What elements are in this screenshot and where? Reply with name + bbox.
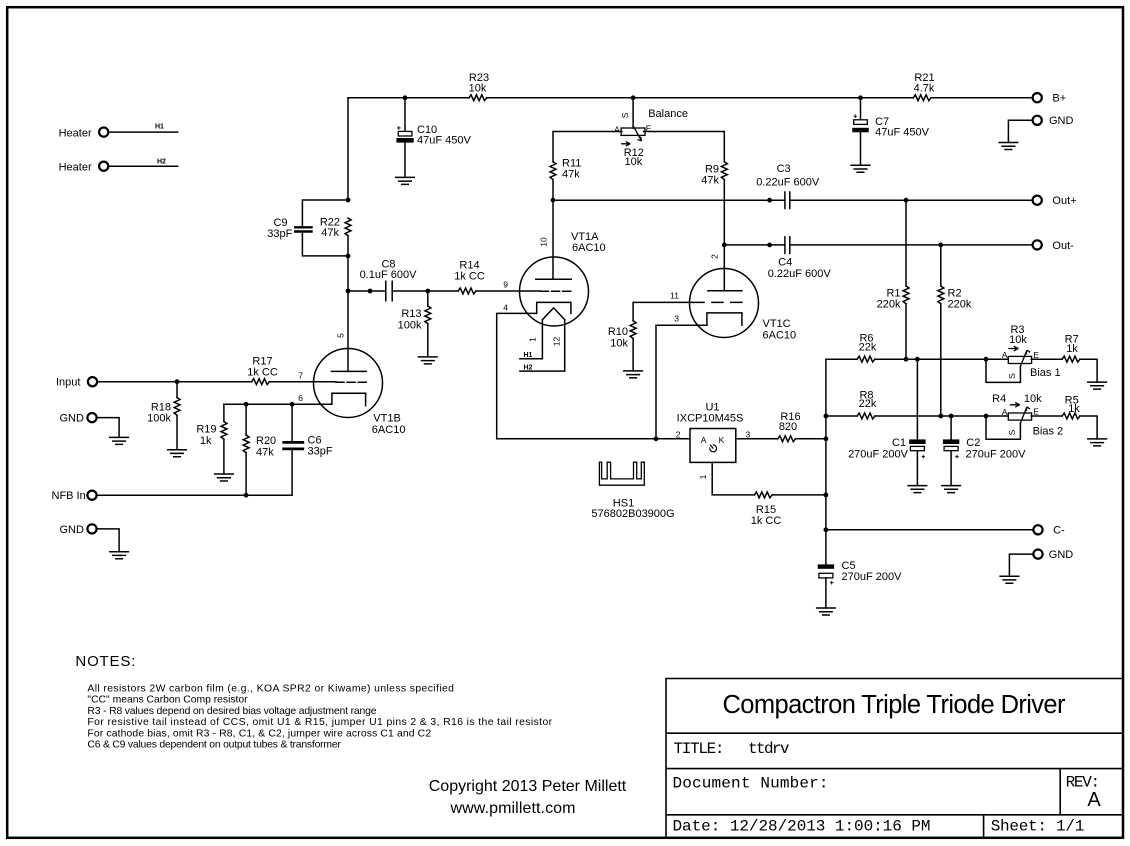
connector GND (bottom right) [1033,549,1073,561]
svg-text:Bias 2: Bias 2 [1033,426,1064,438]
node U1 input / VT1C cathode junction [654,436,659,441]
svg-text:NFB In: NFB In [52,490,86,502]
node C8 / R13 junction [425,289,430,294]
VT1C cathode [707,313,742,325]
svg-text:0.1uF 600V: 0.1uF 600V [360,269,418,281]
wire R4 wiper loop [986,416,1020,439]
svg-text:0.22uF 600V: 0.22uF 600V [768,268,832,280]
svg-text:1k CC: 1k CC [247,367,278,379]
resistor R23 [469,72,489,101]
potentiometer R3 Bias 1 [1002,324,1061,379]
svg-text:C1: C1 [892,437,906,449]
svg-text:10k: 10k [469,83,487,95]
connector B+ [1033,93,1067,105]
wire GND connector to ground [1008,120,1032,142]
resistor R10 [608,321,636,371]
node R6 rail / R1 junction [904,357,909,362]
wire pot A to R11 [553,132,622,162]
wire C8 rail [348,290,541,292]
ground below C7 [851,165,870,172]
svg-text:5: 5 [336,333,346,338]
resistor R14 [454,260,485,294]
svg-text:VT1B: VT1B [373,413,401,425]
svg-text:1k: 1k [200,435,212,447]
node R9/VT1C plate/Out- junction [722,243,727,248]
ground (left upper) [110,437,129,444]
capacitor C3 [756,163,820,208]
capacitor C4 [768,237,832,280]
node Out- / R2 junction [938,243,943,248]
connector GND (left upper) [60,413,97,425]
resistor R20 [243,404,276,495]
resistor R19 [196,404,227,474]
svg-text:C2: C2 [966,437,980,449]
op-amp U1 IXCP10M45S [676,402,751,463]
resistor R2 [938,245,972,416]
VT1B cathode [332,393,366,405]
svg-text:A: A [701,435,707,445]
svg-text:270uF 200V: 270uF 200V [842,571,903,583]
svg-text:R4: R4 [992,393,1006,405]
svg-text:33pF: 33pF [267,228,292,240]
svg-text:Out-: Out- [1052,240,1074,252]
connector Heater H2 [59,161,109,173]
svg-text:R13: R13 [401,308,421,320]
svg-text:1: 1 [528,337,538,342]
svg-text:3: 3 [746,429,751,439]
svg-text:100k: 100k [147,413,171,425]
node Out+ / R1 junction [904,198,909,203]
svg-text:10: 10 [539,237,549,247]
svg-text:Out+: Out+ [1052,195,1076,207]
svg-text:ttdrv: ttdrv [748,740,790,758]
node stray dot left of C8 [368,289,373,294]
wire R9 bottom to Out- rail [723,180,725,245]
svg-text:11: 11 [670,291,679,301]
connector GND (top right) [1033,115,1074,127]
wire VT1C cathode pin 3 down to U1 input node [656,314,707,439]
node pin6 / R20 junction [244,402,249,407]
svg-text:S: S [620,112,630,118]
svg-text:820: 820 [779,421,797,433]
svg-text:220k: 220k [948,298,972,310]
ground (left lower) [110,552,129,559]
resistor R5 [1062,394,1080,419]
connector GND (left lower) [60,524,97,536]
node R6 rail / C1 junction [915,357,920,362]
ground below R7 [1088,382,1107,389]
svg-text:10k: 10k [1009,334,1027,346]
ground below R5 [1088,439,1107,446]
svg-text:10k: 10k [610,338,628,350]
wire R12 wiper [632,98,634,128]
VT1C plate lead pin 2 [710,245,725,291]
wire R6 bias rail [826,359,1097,382]
svg-text:22k: 22k [859,341,877,353]
node C8 rail tap [346,289,351,294]
svg-text:2: 2 [710,254,720,259]
resistor R17 [247,356,278,385]
svg-text:33pF: 33pF [308,446,333,458]
svg-text:K: K [719,435,725,445]
connector Input [56,377,97,389]
svg-text:Document Number:: Document Number: [673,774,829,792]
tube VT1B 6AC10 [314,349,406,437]
connector NFB In [52,490,97,502]
capacitor C9 [267,200,348,256]
potentiometer R12 Balance [614,108,688,168]
resistor R8 [857,389,877,419]
svg-text:R3 - R8 values depend on desir: R3 - R8 values depend on desired bias vo… [87,706,376,717]
svg-text:GND: GND [60,413,85,425]
svg-text:For resistive tail instead of: For resistive tail instead of CCS, omit … [87,717,552,728]
wire NFB rail [97,494,292,496]
svg-text:7: 7 [298,371,303,381]
VT1A grid (dashed) [541,290,572,292]
svg-text:1k CC: 1k CC [751,515,782,527]
node NFB / R20 junction [244,493,249,498]
svg-text:47uF 450V: 47uF 450V [875,126,929,138]
node R8 rail / R4 wiper junction [984,414,989,419]
svg-text:Bias 1: Bias 1 [1030,367,1061,379]
svg-text:100k: 100k [398,319,422,331]
wire left bias vertical [825,359,827,564]
svg-text:47uF 450V: 47uF 450V [417,135,471,147]
title block frame [666,679,1122,838]
heatsink HS1 [591,462,674,520]
svg-text:3: 3 [674,314,679,324]
wire GND connector to ground [1009,554,1033,576]
svg-text:47k: 47k [701,175,719,187]
wire U1 pin 3 to R16 [736,438,778,440]
svg-text:VT1C: VT1C [763,318,791,330]
potentiometer R4 Bias 2 [992,393,1063,437]
ground below R19 [215,474,234,481]
svg-text:GND: GND [1049,115,1074,127]
node R8 rail / C2 junction [949,414,954,419]
svg-text:www.pmillett.com: www.pmillett.com [450,800,576,817]
wire VT1C grid pin 11 to R10 [633,291,693,321]
svg-text:A: A [1002,350,1008,360]
svg-text:For cathode bias, omit R3 - R8: For cathode bias, omit R3 - R8, C1, & C2… [87,728,431,739]
capacitor C5 [818,560,902,608]
wire R11 bottom to Out+ rail [552,180,554,201]
resistor R1 [877,200,909,359]
wire pot E to R9 [644,132,725,162]
connector Heater H1 [59,127,109,139]
svg-text:C4: C4 [778,257,792,269]
svg-text:GND: GND [60,524,85,536]
wire Out- rail [724,244,1032,246]
svg-text:C3: C3 [777,163,791,175]
ground below R13 [419,357,438,364]
resistor R15 [751,492,826,527]
node stray dot left of C4 [767,243,772,248]
node pin6 / C6 junction [290,402,295,407]
svg-text:220k: 220k [877,298,901,310]
VT1C grid (dashed) [693,301,742,303]
capacitor C6 [282,404,333,495]
svg-text:47k: 47k [562,169,580,181]
node C9/R22 bottom [346,254,351,259]
capacitor C8 [360,258,418,300]
node R16 / left vertical junction [824,436,829,441]
svg-text:C-: C- [1053,525,1065,537]
node C- rail / left vertical junction [824,527,829,532]
wire top rail corner down to C9/R22 node [347,98,349,200]
svg-text:TITLE:: TITLE: [674,740,725,758]
svg-text:R18: R18 [151,401,171,413]
VT1C plate [708,290,742,292]
svg-text:Date: 12/28/2013 1:00:16 PM: Date: 12/28/2013 1:00:16 PM [673,818,931,836]
svg-text:GND: GND [1049,549,1074,561]
VT1B plate [332,333,367,372]
tube VT1C 6AC10 [690,269,797,342]
wire U1 pin 1 to R15 [698,462,754,495]
wire H1 [109,123,178,132]
svg-text:6: 6 [298,393,303,403]
node R6 rail / R3 wiper junction [984,357,989,362]
svg-text:Heater: Heater [59,161,92,173]
svg-text:1k CC: 1k CC [454,270,485,282]
svg-text:A: A [1002,407,1008,417]
svg-text:Heater: Heater [59,127,92,139]
svg-text:IXCP10M45S: IXCP10M45S [677,412,744,424]
VT1B grid (dashed) [336,381,366,383]
notes text [87,684,552,751]
wire R8 bias rail [826,416,1097,439]
svg-text:1: 1 [698,474,708,479]
ground below R10 [624,371,643,378]
resistor R18 [147,382,180,450]
svg-text:Copyright 2013 Peter Millett: Copyright 2013 Peter Millett [429,778,627,795]
svg-text:9: 9 [503,280,508,290]
wire C- rail [826,529,1034,531]
wire R22 bottom down to C8 rail and VT1B plate [347,236,349,372]
resistor R7 [1062,333,1080,362]
svg-text:4: 4 [503,303,508,313]
resistor R11 [550,157,581,180]
svg-text:Sheet: 1/1: Sheet: 1/1 [991,818,1085,836]
svg-text:10k: 10k [625,156,643,168]
node R8 rail / left vertical junction [824,414,829,419]
svg-text:Balance: Balance [648,108,688,120]
resistor R13 [398,291,431,357]
svg-text:C6 & C9 values dependent on ou: C6 & C9 values dependent on output tubes… [87,740,341,751]
svg-text:R11: R11 [562,157,581,169]
resistor R16 [778,411,826,442]
svg-text:2: 2 [676,429,681,439]
svg-text:All resistors 2W carbon film (: All resistors 2W carbon film (e.g., KOA … [87,684,454,695]
VT1A plate [536,278,571,280]
svg-text:H1: H1 [524,352,533,359]
svg-text:4.7k: 4.7k [914,83,935,95]
svg-text:22k: 22k [859,398,877,410]
node stray dot left of C3 [767,198,772,203]
resistor R9 [701,162,727,187]
node top rail / R12 wiper junction [631,95,636,100]
ground below C2 [942,486,961,493]
svg-text:6AC10: 6AC10 [372,424,406,436]
svg-text:A: A [614,125,620,135]
svg-text:E: E [1033,407,1039,417]
connector Out+ [1033,195,1077,207]
svg-text:270uF 200V: 270uF 200V [848,448,909,460]
node top rail / C7 junction [858,95,863,100]
wire R3 wiper loop [986,359,1020,382]
node R8 rail / R2 junction [938,414,943,419]
svg-text:6AC10: 6AC10 [763,330,797,342]
ground (bottom right) [1000,576,1019,583]
svg-text:E: E [1033,350,1039,360]
node top rail / C10 junction [403,95,408,100]
capacitor C10 [396,98,471,178]
wire Input rail [97,381,336,383]
ground below C1 [908,486,927,493]
svg-text:R10: R10 [608,326,628,338]
node R15 / left vertical junction [824,493,829,498]
wire GND connector lower [97,529,119,552]
svg-text:47k: 47k [256,446,274,458]
resistor R22 [320,216,351,239]
svg-text:H1: H1 [155,123,164,130]
svg-text:270uF 200V: 270uF 200V [966,448,1027,460]
svg-text:0.22uF 600V: 0.22uF 600V [756,177,820,189]
svg-text:R19: R19 [196,424,216,436]
VT1A cathode [537,302,571,313]
svg-text:S: S [1007,373,1017,379]
wire H2 [109,159,178,167]
svg-text:1k: 1k [1066,343,1078,355]
connector Out- [1033,240,1075,252]
node Input / R18 junction [175,379,180,384]
capacitor C7 [852,98,929,166]
svg-text:NOTES:: NOTES: [75,653,135,670]
svg-text:47k: 47k [321,227,339,239]
wire VT1A cathode pin 4 to U1 pin 2 [497,303,690,439]
connector C- [1033,525,1065,537]
svg-text:H2: H2 [524,364,533,371]
VT1A heater filament [520,308,565,372]
svg-text:1k: 1k [1068,403,1080,415]
svg-text:"CC" means Carbon Comp resisto: "CC" means Carbon Comp resistor [87,695,248,706]
resistor R6 [857,333,877,363]
capacitor C1 [848,359,926,485]
ground below C5 [817,608,836,615]
svg-text:S: S [1007,429,1017,435]
node R11/VT1A plate/Out+ junction [551,198,556,203]
ground below R18 [168,450,187,457]
node C9/R22 top [346,198,351,203]
svg-text:H2: H2 [157,159,166,166]
wire Out+ rail [553,199,1033,201]
VT1A plate lead pin 10 [539,200,554,279]
tube VT1A 6AC10 [520,231,606,326]
wire B+ top rail [348,97,1033,99]
svg-text:10k: 10k [1024,393,1042,405]
wire VT1B cathode pin 6 rail [224,393,332,404]
ground below C10 [396,177,415,184]
capacitor C2 [943,416,1026,486]
ground (top right) [999,143,1018,150]
resistor R21 [913,72,935,101]
svg-text:12: 12 [551,337,561,347]
svg-text:576802B03900G: 576802B03900G [591,508,674,520]
svg-text:A: A [1087,789,1101,811]
svg-text:6AC10: 6AC10 [572,242,606,254]
svg-text:Compactron Triple Triode Drive: Compactron Triple Triode Driver [723,691,1067,719]
svg-text:B+: B+ [1052,93,1066,105]
wire GND connector [97,418,119,438]
svg-text:Input: Input [56,377,80,389]
